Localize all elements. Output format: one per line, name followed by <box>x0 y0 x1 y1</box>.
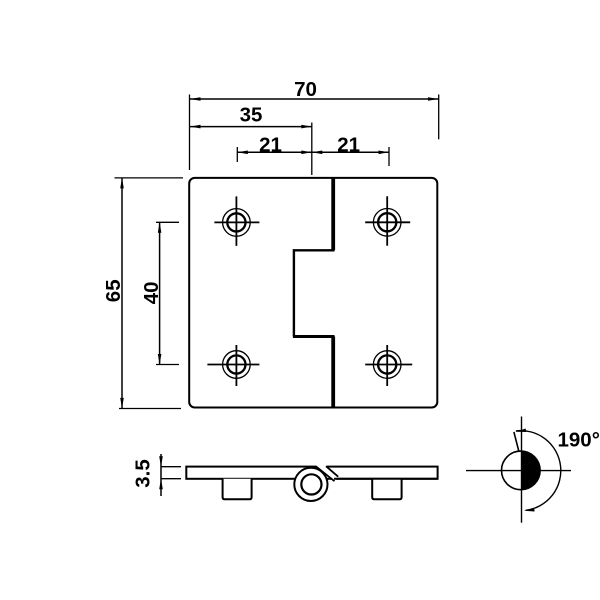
svg-text:40: 40 <box>140 281 163 304</box>
dimension 21 left arrow left <box>237 151 248 155</box>
hole bottom-left inner circle <box>227 355 245 373</box>
dimension 65 arrow top <box>120 178 124 189</box>
dimension 21 left line <box>237 151 311 153</box>
dimension 65 line <box>121 178 123 409</box>
dimension 35 arrow right <box>301 125 312 129</box>
dimension 3.5 arrow top <box>159 456 163 467</box>
dimension 70 line <box>190 98 439 100</box>
hole top-left crosshair <box>214 196 259 246</box>
hinge joint thick line lower segment <box>331 337 335 407</box>
svg-text:21: 21 <box>259 133 282 156</box>
svg-text:70: 70 <box>294 78 317 101</box>
dimension 65 arrow bottom <box>120 398 124 409</box>
dimension 70 extension line right <box>438 95 440 140</box>
plate outline (front view) <box>189 178 437 408</box>
dimension 21 right arrow right <box>379 151 390 155</box>
dimension 35 arrow left <box>190 125 201 129</box>
opening angle icon vertical centerline <box>521 417 523 523</box>
dimension 40 line <box>159 222 161 364</box>
side view bent leaf band fill <box>316 465 339 482</box>
svg-text:35: 35 <box>240 103 263 126</box>
opening angle icon filled half-disk <box>522 451 541 489</box>
dimension 65 extension line top <box>115 177 184 179</box>
dimension 70 arrow right <box>428 97 439 101</box>
dimension 21 right extension stub <box>388 147 390 166</box>
hole bottom-right crosshair <box>365 345 412 386</box>
dimension 40 arrow bottom <box>158 354 162 365</box>
side view right tab <box>372 479 401 499</box>
hinge joint thick line upper segment <box>331 179 335 251</box>
dimension 40 arrow top <box>158 222 162 233</box>
side view knuckle outer circle <box>294 468 327 501</box>
hole top-right inner circle <box>378 213 396 231</box>
dimension 21 right arrow left <box>312 151 323 155</box>
dimension 70 extension line left <box>189 95 191 171</box>
dimension 21 right line <box>312 151 389 153</box>
side view bent leaf band edge 2 <box>326 466 338 477</box>
dimension 3.5 line <box>160 454 162 496</box>
side view bent leaf band edge 1 <box>316 466 335 481</box>
hole top-right outer circle <box>373 209 401 237</box>
dimension 40 extension line bottom <box>156 364 179 366</box>
opening angle icon arc <box>516 431 561 511</box>
dimension 40 extension line top <box>156 221 179 223</box>
notch bottom line <box>293 335 335 338</box>
opening angle icon circle <box>502 451 541 490</box>
side view knuckle inner circle <box>301 474 321 494</box>
svg-text:190°: 190° <box>558 429 600 452</box>
dimension 21 left arrow right <box>301 151 312 155</box>
side view left tab <box>223 479 252 499</box>
side view bar bottom edge right segment <box>334 478 438 480</box>
hole top-left outer circle <box>223 209 251 237</box>
svg-text:65: 65 <box>102 279 125 302</box>
opening angle icon rotated leaf line <box>514 432 519 452</box>
opening angle icon horizontal centerline <box>466 470 571 472</box>
center extension line <box>311 123 313 176</box>
dimension 3.5 extension line top <box>161 466 181 468</box>
opening angle icon arc arrow top <box>516 428 527 432</box>
notch cutout in left leaf <box>294 250 335 336</box>
dimension 21 left extension stub <box>236 147 238 162</box>
dimension 3.5 extension line bottom <box>161 478 181 480</box>
hole bottom-left crosshair <box>207 345 259 386</box>
side view bar outline <box>186 467 437 479</box>
hole bottom-right outer circle <box>373 351 401 379</box>
hole top-right crosshair <box>365 196 410 246</box>
opening angle icon arc arrow bottom <box>524 508 535 512</box>
hole bottom-left outer circle <box>223 351 251 379</box>
hole top-left inner circle <box>227 213 245 231</box>
svg-text:21: 21 <box>337 133 360 156</box>
svg-text:3.5: 3.5 <box>132 459 155 488</box>
dimension 65 extension line bottom <box>119 408 181 410</box>
dimension 35 line <box>190 126 312 128</box>
hole bottom-right inner circle <box>378 355 396 373</box>
dimension 3.5 arrow bottom <box>159 479 163 490</box>
dimension 70 arrow left <box>190 97 201 101</box>
